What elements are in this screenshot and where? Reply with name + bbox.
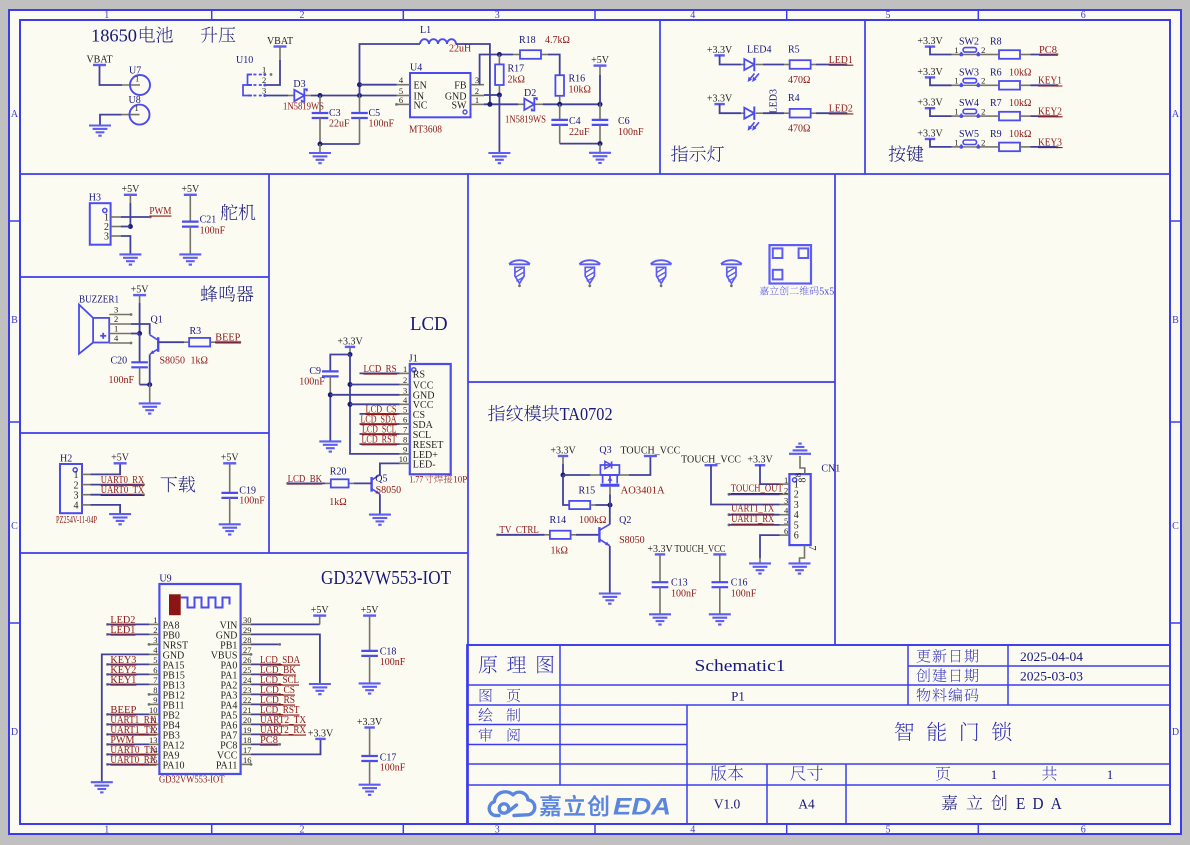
- svg-text:PC8: PC8: [260, 735, 278, 746]
- svg-text:Q3: Q3: [599, 445, 611, 456]
- svg-text:2: 2: [784, 485, 788, 495]
- company 嘉立创EDA: [942, 795, 1007, 810]
- svg-text:+5V: +5V: [591, 55, 610, 66]
- svg-text:SW3: SW3: [959, 67, 979, 78]
- wire H3 pin3 to ground: [121, 236, 130, 254]
- resistor R15 100k: [569, 501, 590, 509]
- wire U10 pin3 to D3: [266, 95, 288, 97]
- ground (download header): [109, 513, 131, 515]
- svg-text:D: D: [11, 727, 18, 738]
- svg-text:C: C: [11, 521, 18, 532]
- svg-text:3: 3: [495, 824, 500, 835]
- svg-text:NC: NC: [414, 100, 428, 111]
- svg-text:2: 2: [153, 625, 157, 635]
- svg-text:SW4: SW4: [959, 98, 979, 109]
- svg-text:R4: R4: [788, 93, 800, 104]
- svg-text:R17: R17: [508, 64, 525, 75]
- wire emitter to ground: [149, 385, 151, 403]
- connector H2 PZ254V-11-04P: [60, 464, 82, 513]
- transistor Q2 S8050: [598, 527, 600, 542]
- svg-text:C6: C6: [618, 116, 630, 127]
- svg-text:4: 4: [784, 506, 789, 516]
- U9 unconnected left stubs: [148, 643, 151, 646]
- svg-text:MT3608: MT3608: [409, 125, 442, 136]
- svg-text:+3.3V: +3.3V: [550, 445, 576, 456]
- junction +3.3V / Q3 source: [561, 473, 566, 478]
- power flag +3.3V (LED row 2): [714, 103, 724, 105]
- svg-text:R18: R18: [519, 35, 536, 46]
- wire R14 to Q2 base: [576, 534, 599, 536]
- junction C5 top: [357, 93, 362, 98]
- svg-text:1N5819WS: 1N5819WS: [505, 115, 546, 126]
- wire +5V rail: [139, 303, 141, 334]
- svg-text:U9: U9: [159, 574, 171, 585]
- svg-text:V1.0: V1.0: [714, 797, 741, 812]
- wire +3.3V to LED: [720, 104, 741, 113]
- junction GND node: [497, 93, 502, 98]
- title block label 页: [936, 766, 950, 780]
- wire H2 pin1 to +5V: [91, 463, 121, 474]
- svg-text:C3: C3: [329, 108, 341, 119]
- ground (servo header): [119, 253, 141, 255]
- resistor R6: [999, 81, 1020, 90]
- svg-text:R15: R15: [579, 486, 596, 497]
- svg-text:C20: C20: [111, 355, 128, 366]
- svg-text:L1: L1: [420, 25, 431, 36]
- junction buzzer pin1 +5V: [137, 331, 142, 336]
- junction +5V node: [598, 102, 603, 107]
- wire +3.3V down to R15: [563, 475, 569, 505]
- section title 下载: [161, 476, 196, 492]
- svg-text:1: 1: [954, 76, 958, 86]
- svg-text:PWM: PWM: [149, 206, 171, 217]
- resistor R18 4.7k: [513, 54, 520, 56]
- svg-text:1: 1: [104, 824, 109, 835]
- svg-text:C13: C13: [671, 578, 688, 589]
- wire VBAT rail up to inductor: [360, 44, 421, 96]
- svg-text:3: 3: [403, 385, 407, 395]
- wire D2 to output node: [543, 103, 600, 105]
- svg-text:C21: C21: [200, 215, 217, 226]
- svg-text:1kΩ: 1kΩ: [551, 546, 568, 557]
- svg-text:21: 21: [243, 705, 252, 715]
- svg-text:2kΩ: 2kΩ: [508, 75, 525, 86]
- svg-text:C4: C4: [569, 116, 581, 127]
- diode D2 1N5819WS: [518, 103, 524, 105]
- svg-text:3: 3: [104, 232, 109, 243]
- svg-text:5: 5: [403, 404, 407, 414]
- svg-text:S8050: S8050: [376, 485, 402, 496]
- wire R18 to R16 top: [548, 55, 560, 76]
- screw U13: [651, 260, 672, 264]
- svg-text:+3.3V: +3.3V: [647, 544, 673, 555]
- section title 舵机: [221, 204, 256, 220]
- svg-text:4: 4: [403, 395, 408, 405]
- svg-text:TOUCH_VCC: TOUCH_VCC: [675, 544, 726, 555]
- power flag +3.3V (fingerprint): [558, 455, 568, 457]
- diode D3 1N5819WS: [288, 95, 294, 97]
- svg-text:3: 3: [784, 496, 788, 506]
- QR code placeholder 嘉立创二维码5x5: [770, 245, 812, 283]
- screw U11: [509, 260, 530, 264]
- svg-text:18: 18: [243, 735, 252, 745]
- wire U9 GND29 to ground: [251, 634, 320, 683]
- wire FB to divider: [480, 55, 513, 85]
- ground (output caps): [589, 152, 611, 154]
- battery cell U8: [122, 114, 140, 116]
- U9 left pin 1 PA8: [149, 623, 159, 625]
- svg-text:KEY1: KEY1: [110, 675, 136, 686]
- svg-text:2025-04-04: 2025-04-04: [1020, 650, 1084, 664]
- power flag +3.3V (key row 4): [925, 138, 935, 140]
- wire U9 to net LCD_BK: [251, 673, 280, 675]
- svg-text:3: 3: [475, 75, 479, 85]
- frame row ticks left/right: [9, 220, 20, 222]
- svg-text:TA0702: TA0702: [560, 404, 613, 424]
- resistor R3 1k: [184, 341, 190, 343]
- U9 left pin 11 PB4: [149, 723, 159, 725]
- wire U9 to net LCD_SCL: [251, 683, 280, 685]
- capacitor C5 100nF: [359, 96, 361, 114]
- svg-text:B: B: [11, 315, 18, 326]
- svg-text:+5V: +5V: [361, 605, 380, 616]
- svg-text:1: 1: [403, 364, 407, 374]
- net label LCD_BK: [286, 482, 289, 485]
- U9 right pin 17 VCC: [241, 753, 251, 755]
- wire U9 to net UART2_TX: [251, 723, 280, 725]
- wire to net KEY2: [1031, 115, 1058, 117]
- svg-text:+3.3V: +3.3V: [917, 67, 943, 78]
- wire net UART1_TX to U9 pin 12: [106, 733, 109, 736]
- junction GND wire meets C9: [328, 392, 333, 397]
- svg-text:100nF: 100nF: [618, 127, 644, 138]
- project name 智能门锁: [895, 722, 1012, 741]
- svg-text:1.77: 1.77: [409, 476, 423, 486]
- svg-text:1: 1: [104, 10, 109, 21]
- screw U14: [721, 260, 742, 264]
- power flag +3.3V (key row 3): [925, 107, 935, 109]
- capacitor C13 100nF: [655, 553, 665, 555]
- power flag TOUCH_VCC (Q3 drain): [644, 455, 657, 457]
- svg-text:4: 4: [74, 501, 79, 512]
- svg-text:2: 2: [403, 375, 407, 385]
- wire +3.3V to switch: [930, 77, 952, 85]
- title block label 尺寸: [790, 765, 823, 781]
- frame column ticks top/bottom: [211, 10, 213, 20]
- U9 left pin 4 GND: [149, 653, 159, 655]
- U9 left pin 7 PB13: [149, 683, 159, 685]
- wire U9 to net LCD_RS: [251, 703, 280, 705]
- U9 left pin 10 PB2: [149, 713, 159, 715]
- junction FB node: [497, 52, 502, 57]
- svg-text:C9: C9: [309, 366, 321, 377]
- title block label 原理图: [479, 656, 554, 674]
- svg-text:3: 3: [114, 305, 118, 315]
- svg-text:10kΩ: 10kΩ: [1009, 98, 1031, 109]
- U9 right pin 24 PA2: [241, 683, 251, 685]
- U9 right pin 19 PA7: [241, 733, 251, 735]
- svg-text:R8: R8: [990, 37, 1002, 48]
- connector H3: [90, 203, 111, 245]
- capacitor C9 100nF: [322, 370, 339, 372]
- net label wires LCD_RS/CS/SDA/SCL/RST: [360, 372, 400, 374]
- title block label 图页: [480, 689, 520, 703]
- svg-text:3: 3: [495, 10, 500, 21]
- svg-text:EDA: EDA: [1016, 794, 1069, 813]
- power flag +3.3V (key row 1): [925, 45, 935, 47]
- svg-text:R20: R20: [330, 466, 347, 477]
- svg-text:6: 6: [399, 95, 403, 105]
- svg-text:D2: D2: [524, 88, 536, 99]
- svg-text:LED2: LED2: [829, 104, 853, 115]
- power flag +3.3V (LED row 1): [714, 54, 724, 56]
- junction +3.3V node: [348, 352, 353, 357]
- svg-text:100nF: 100nF: [731, 589, 757, 600]
- svg-text:SW2: SW2: [959, 37, 979, 48]
- svg-text:2: 2: [981, 107, 985, 117]
- svg-text:CN1: CN1: [821, 464, 840, 475]
- svg-text:J1: J1: [409, 354, 418, 365]
- svg-text:3: 3: [153, 635, 157, 645]
- wire U9 to net PC8: [251, 743, 280, 745]
- svg-text:H2: H2: [60, 454, 72, 465]
- ground (U4): [488, 152, 510, 154]
- wire U9 to net LCD_RST: [251, 713, 280, 715]
- wire net BEEP to U9 pin 10: [106, 713, 109, 716]
- svg-text:1: 1: [114, 324, 118, 334]
- junction R16 bottom: [557, 102, 562, 107]
- svg-text:1N5819WS: 1N5819WS: [283, 102, 324, 113]
- junction SW-L1: [487, 102, 492, 107]
- svg-text:22uF: 22uF: [329, 119, 350, 130]
- chip U4 MT3608: [410, 73, 471, 117]
- svg-text:6: 6: [153, 665, 157, 675]
- svg-text:C5: C5: [369, 108, 381, 119]
- wire U8 to ground: [100, 115, 122, 125]
- svg-text:10kΩ: 10kΩ: [1009, 67, 1031, 78]
- svg-text:470Ω: 470Ω: [788, 75, 810, 86]
- svg-text:Q1: Q1: [151, 315, 163, 326]
- capacitor C4 22uF: [559, 104, 561, 120]
- svg-text:8: 8: [798, 478, 809, 483]
- wire to pin4 VCC: [350, 403, 400, 405]
- battery cell U7: [122, 84, 140, 86]
- svg-text:C: C: [1172, 521, 1179, 532]
- wire net UART1_RX to U9 pin 11: [106, 723, 109, 726]
- svg-text:100nF: 100nF: [109, 375, 135, 386]
- U9 left pin 2 PB0: [149, 633, 159, 635]
- svg-text:KEY2: KEY2: [1038, 107, 1062, 118]
- U9 right pin 20 PA6: [241, 723, 251, 725]
- svg-text:1: 1: [475, 95, 479, 105]
- wire net KEY1 to U9 pin 7: [106, 683, 109, 686]
- wire to net KEY3: [1031, 146, 1058, 148]
- wire R3 to BEEP: [215, 341, 240, 343]
- junction emitter-ground: [147, 382, 152, 387]
- svg-text:LCD_RST: LCD_RST: [362, 435, 397, 446]
- title block label 共: [1042, 766, 1057, 781]
- svg-text:R7: R7: [990, 98, 1002, 109]
- ground (buzzer): [139, 402, 161, 404]
- svg-text:8: 8: [793, 473, 803, 477]
- U9 left pin 3 NRST: [149, 643, 159, 645]
- wire H3 pin1 to PWM: [121, 216, 150, 218]
- svg-text:1: 1: [262, 65, 266, 75]
- svg-text:13: 13: [149, 735, 158, 745]
- power flag VBAT (boost input): [274, 45, 287, 47]
- svg-text:FB: FB: [454, 81, 467, 92]
- svg-text:Schematic1: Schematic1: [695, 656, 786, 675]
- resistor R20 1k: [325, 482, 331, 484]
- svg-text:U4: U4: [410, 63, 422, 74]
- wire U9 to net LCD_CS: [251, 693, 280, 695]
- svg-text:100nF: 100nF: [671, 589, 697, 600]
- wire D3 to U4 IN with branches: [311, 95, 397, 97]
- wire U9 GND pin4 to ground: [102, 654, 149, 781]
- svg-text:UART0_TX: UART0_TX: [101, 485, 145, 496]
- wire +3.3V to LED: [720, 55, 741, 64]
- svg-text:1: 1: [954, 137, 958, 147]
- resistor R16 10k: [555, 75, 564, 96]
- wire EN branch: [360, 84, 397, 86]
- chip logo mark: [169, 594, 181, 615]
- svg-text:1: 1: [954, 45, 958, 55]
- svg-text:23: 23: [243, 685, 252, 695]
- svg-text:+3.3V: +3.3V: [707, 94, 733, 105]
- inductor L1 22uH: [420, 39, 456, 44]
- U9 right pin 21 PA5: [241, 713, 251, 715]
- svg-text:100nF: 100nF: [200, 225, 226, 236]
- wire base to R3: [158, 341, 184, 343]
- wire LCD_BK to R20: [288, 482, 325, 484]
- wire TOUCH_VCC to CN1 pin3: [711, 465, 780, 504]
- capacitor C16 100nF: [713, 553, 726, 555]
- svg-text:4.7kΩ: 4.7kΩ: [545, 35, 570, 46]
- wire C9 to ground: [329, 395, 331, 441]
- power flag +5V (VIN): [313, 614, 326, 616]
- svg-text:SW5: SW5: [959, 129, 979, 140]
- svg-text:+3.3V: +3.3V: [747, 455, 773, 466]
- capacitor C17 100nF: [364, 726, 374, 728]
- wire net LED2 to U9 pin 1: [106, 623, 109, 626]
- capacitor C20 100nF: [139, 334, 141, 363]
- svg-text:100nF: 100nF: [380, 657, 406, 668]
- svg-text:+3.3V: +3.3V: [707, 45, 733, 56]
- svg-text:A4: A4: [798, 797, 815, 812]
- svg-text:S8050: S8050: [619, 535, 645, 546]
- svg-text:Q5: Q5: [375, 473, 387, 484]
- svg-text:+5V: +5V: [221, 453, 240, 464]
- svg-text:10: 10: [149, 705, 158, 715]
- wire R20 to Q5 base: [354, 482, 372, 484]
- section divider lines: [20, 173, 1170, 175]
- U9 left pin 14 PA9: [149, 753, 159, 755]
- svg-text:+3.3V: +3.3V: [917, 36, 943, 47]
- svg-text:H3: H3: [89, 193, 101, 204]
- svg-text:2: 2: [114, 314, 118, 324]
- svg-text:C16: C16: [731, 578, 748, 589]
- svg-text:+5V: +5V: [111, 453, 130, 464]
- power flag +5V (servo): [124, 194, 137, 196]
- title block grid: [467, 645, 1170, 824]
- svg-text:5: 5: [886, 10, 891, 21]
- power flag VBAT (battery): [93, 64, 106, 66]
- junction output ground: [598, 141, 603, 146]
- switch SW3: [952, 84, 962, 86]
- junction VCC pin4 branch: [348, 402, 353, 407]
- svg-text:8: 8: [153, 685, 157, 695]
- svg-text:BEEP: BEEP: [215, 333, 240, 344]
- wire net LED1 to U9 pin 2: [106, 633, 109, 636]
- wire pin10 LED- to Q5: [380, 463, 400, 476]
- wire U9 to net LCD_SDA: [251, 663, 280, 665]
- resistor R7: [999, 112, 1020, 121]
- svg-text:100nF: 100nF: [369, 119, 395, 130]
- chip U9 GD32VW553-IOT module: [159, 584, 240, 774]
- svg-text:LED1: LED1: [110, 625, 135, 636]
- svg-text:9: 9: [403, 444, 407, 454]
- svg-text:R14: R14: [550, 515, 567, 526]
- logo JLC EDA cloud: [489, 792, 535, 816]
- CN1 top pin 8 to ground: [800, 456, 805, 474]
- power flag +5V (buzzer): [133, 294, 146, 296]
- svg-text:VBAT: VBAT: [86, 54, 112, 65]
- U9 right pin 29 GND: [241, 633, 251, 635]
- junction C3 top: [318, 93, 323, 98]
- svg-text:PZ254V-11-04P: PZ254V-11-04P: [56, 515, 97, 526]
- U9 PA11 stub: [250, 763, 253, 766]
- wire CN1 pin6 to ground: [760, 535, 780, 558]
- svg-text:Q2: Q2: [619, 515, 631, 526]
- svg-text:100nF: 100nF: [380, 763, 406, 774]
- svg-text:R9: R9: [990, 129, 1002, 140]
- svg-text:S8050: S8050: [160, 355, 186, 366]
- svg-text:+5V: +5V: [131, 285, 150, 296]
- svg-text:TOUCH_OUT: TOUCH_OUT: [731, 483, 783, 494]
- svg-text:6: 6: [1081, 10, 1086, 21]
- wire to net LED2: [816, 112, 846, 114]
- svg-text:GD32VW553-IOT: GD32VW553-IOT: [321, 567, 451, 589]
- wire LED to resistor: [763, 112, 784, 114]
- junction EN branch: [357, 82, 362, 87]
- svg-text:1: 1: [991, 767, 998, 782]
- svg-text:2: 2: [300, 824, 305, 835]
- U9 left pin 12 PB3: [149, 733, 159, 735]
- svg-text:R16: R16: [569, 74, 586, 85]
- ground (Q2): [599, 592, 621, 594]
- wire H3 pin2: [121, 226, 130, 228]
- svg-text:PA11: PA11: [216, 760, 238, 771]
- wire H2 pin3 UART0_TX: [91, 494, 144, 496]
- U9 left pin 13 PA12: [149, 743, 159, 745]
- svg-text:UART0_RX: UART0_RX: [110, 755, 157, 766]
- power flag +3.3V (key row 2): [925, 76, 935, 78]
- svg-text:EN: EN: [414, 81, 427, 92]
- capacitor C18 100nF: [363, 614, 376, 616]
- U9 right pin 26 PA0: [241, 663, 251, 665]
- wire GND pin to ground rail: [484, 94, 499, 96]
- wire to net LED1: [816, 64, 846, 66]
- title block label 更新日期: [917, 649, 979, 663]
- svg-text:D3: D3: [293, 79, 305, 90]
- wire VIN to +5V: [251, 623, 320, 625]
- U9 right pin 18 PC8: [241, 743, 251, 745]
- svg-text:7: 7: [403, 425, 407, 435]
- svg-text:6: 6: [784, 526, 788, 536]
- svg-text:2: 2: [981, 45, 985, 55]
- svg-text:R5: R5: [788, 45, 800, 56]
- svg-text:LED-: LED-: [413, 459, 436, 470]
